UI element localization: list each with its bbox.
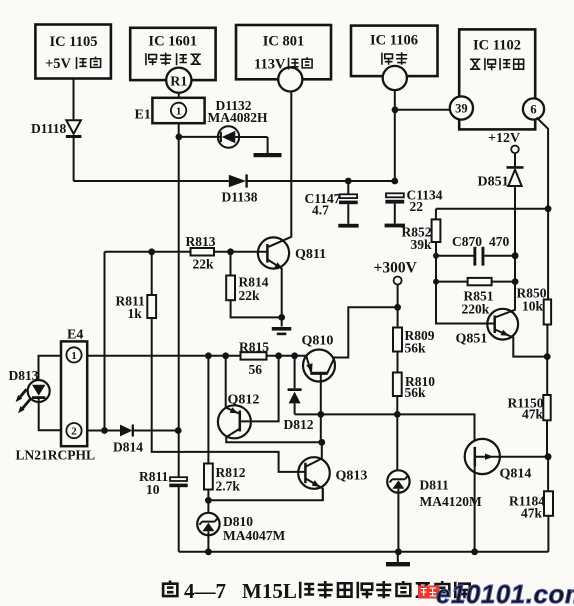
svg-text:Q814: Q814 (500, 467, 532, 482)
svg-text:39k: 39k (411, 237, 433, 252)
svg-text:56k: 56k (405, 341, 427, 356)
svg-text:10: 10 (146, 482, 160, 497)
svg-text:22k: 22k (193, 257, 215, 272)
svg-text:39: 39 (455, 102, 468, 116)
svg-text:Q811: Q811 (295, 247, 326, 262)
svg-text:MA4047M: MA4047M (223, 528, 285, 543)
svg-text:MA4082H: MA4082H (208, 110, 268, 125)
svg-text:22: 22 (410, 199, 424, 214)
svg-text:2.7k: 2.7k (216, 479, 241, 494)
svg-text:MA4120M: MA4120M (420, 494, 482, 509)
svg-text:IC 1105: IC 1105 (50, 34, 98, 50)
svg-text:56: 56 (249, 362, 263, 377)
svg-text:D1118: D1118 (31, 121, 67, 136)
svg-text:10k: 10k (522, 299, 544, 314)
svg-text:Q851: Q851 (456, 332, 488, 347)
svg-text:R815: R815 (239, 340, 269, 355)
svg-text:IC 1102: IC 1102 (473, 38, 521, 54)
svg-text:D1138: D1138 (222, 190, 258, 205)
svg-text:113V: 113V (254, 57, 286, 73)
svg-text:Q813: Q813 (336, 469, 368, 484)
svg-text:47k: 47k (521, 506, 543, 521)
svg-text:+300V: +300V (374, 260, 418, 277)
svg-text:+5V: +5V (45, 56, 72, 72)
svg-text:IC 1601: IC 1601 (148, 34, 197, 50)
svg-text:D813: D813 (9, 368, 39, 383)
svg-text:D810: D810 (223, 514, 253, 529)
svg-text:R1: R1 (170, 75, 187, 90)
svg-text:C870: C870 (452, 234, 482, 249)
svg-text:4.7: 4.7 (312, 203, 329, 218)
svg-text:+12V: +12V (488, 131, 520, 146)
svg-text:R813: R813 (186, 234, 216, 249)
svg-text:6: 6 (530, 103, 536, 117)
svg-text:LN21RCPHL: LN21RCPHL (16, 448, 96, 463)
svg-text:22k: 22k (239, 288, 261, 303)
svg-text:1: 1 (176, 106, 182, 118)
svg-text:E1: E1 (135, 108, 151, 123)
svg-text:220k: 220k (462, 302, 490, 317)
svg-text:470: 470 (489, 234, 510, 249)
svg-text:IC 801: IC 801 (263, 34, 305, 50)
svg-text:56k: 56k (405, 385, 427, 400)
svg-text:Q812: Q812 (228, 393, 260, 408)
svg-text:D812: D812 (284, 417, 314, 432)
svg-text:2: 2 (71, 426, 77, 438)
svg-text:47k: 47k (522, 407, 544, 422)
svg-text:M15L: M15L (242, 579, 297, 603)
svg-text:1: 1 (71, 350, 77, 362)
svg-text:D811: D811 (420, 478, 450, 493)
svg-text:4—7: 4—7 (184, 579, 226, 603)
svg-text:D851: D851 (478, 175, 509, 190)
svg-text:E4: E4 (67, 328, 83, 343)
svg-text:1k: 1k (128, 306, 143, 321)
svg-text:IC 1106: IC 1106 (370, 33, 418, 49)
svg-text:e10101.com: e10101.com (436, 579, 574, 606)
svg-text:Q810: Q810 (302, 334, 334, 349)
svg-text:D814: D814 (113, 440, 143, 455)
